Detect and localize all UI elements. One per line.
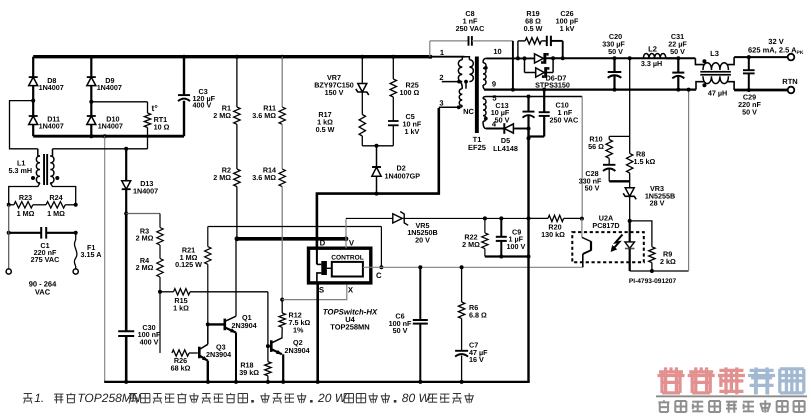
node bias <box>527 127 531 131</box>
wire RTN to terminal <box>734 89 788 92</box>
capacitor C13 <box>527 97 529 112</box>
svg-text:130 kΩ: 130 kΩ <box>541 230 565 239</box>
resistor R1 <box>235 55 239 59</box>
transistor Q1 <box>224 319 227 331</box>
wire input line terminal left <box>8 205 10 269</box>
wire output to terminal <box>734 56 788 58</box>
capacitor C28 <box>608 158 610 165</box>
capacitor C1 <box>9 232 42 234</box>
svg-text:1N4007: 1N4007 <box>39 122 64 131</box>
primary lower winding <box>459 89 462 106</box>
node R4-R15 <box>158 290 162 294</box>
wire R21 top to C-pin branch <box>208 226 382 228</box>
svg-text:PC817D: PC817D <box>592 221 619 230</box>
svg-text:0.5 W: 0.5 W <box>524 24 543 33</box>
svg-text:100 V: 100 V <box>507 242 526 251</box>
svg-text:2N3904: 2N3904 <box>285 346 310 355</box>
pin 3 wire <box>439 106 459 108</box>
wire D13 to R3 <box>126 213 160 215</box>
resistor R21 <box>207 227 209 247</box>
svg-text:NC: NC <box>463 107 474 116</box>
optocoupler phototransistor <box>581 219 583 238</box>
svg-text:6.8 Ω: 6.8 Ω <box>469 311 487 320</box>
resistor R4 <box>159 245 161 259</box>
svg-text:2N3904: 2N3904 <box>232 321 257 330</box>
svg-text:250 VAC: 250 VAC <box>550 116 579 125</box>
optocoupler U2A box <box>572 232 644 262</box>
svg-text:2: 2 <box>439 73 443 82</box>
op-amp U4 control block outline <box>309 248 371 283</box>
svg-text:20 W: 20 W <box>317 391 348 405</box>
svg-text:9: 9 <box>492 80 496 89</box>
svg-text:3.3 µH: 3.3 µH <box>641 59 662 68</box>
node AC2 junction D9-D10 <box>89 100 93 104</box>
capacitor C20 <box>613 56 617 60</box>
svg-text:150 V: 150 V <box>325 88 344 97</box>
thermistor RT1 <box>147 102 149 113</box>
wire AC2 upper from bridge to RT1 <box>91 101 147 103</box>
diode D5 <box>486 128 504 130</box>
resistor R15 <box>160 291 174 293</box>
svg-text:100 Ω: 100 Ω <box>400 88 420 97</box>
svg-text:TOP258MN: TOP258MN <box>330 322 369 331</box>
wire bottom primary ground bus <box>104 381 530 383</box>
wire AC1 from L1 to bridge <box>10 101 38 149</box>
svg-text:32 V: 32 V <box>768 37 783 46</box>
svg-text:L2: L2 <box>648 45 657 54</box>
svg-text:S: S <box>319 285 324 294</box>
wire feedback return <box>688 90 690 271</box>
resistor R22 <box>483 216 487 220</box>
svg-text:50 V: 50 V <box>393 326 408 335</box>
capacitor C30 <box>125 214 128 332</box>
inductor L1 common-mode choke <box>37 149 39 156</box>
capacitor C8 <box>430 40 469 42</box>
resistor R11 <box>280 55 284 59</box>
svg-text:47 µH: 47 µH <box>708 89 727 98</box>
wire pin10 to D6 <box>486 57 535 59</box>
svg-text:STPS3150: STPS3150 <box>535 81 570 90</box>
capacitor C6 <box>418 265 422 269</box>
inductor L3 <box>695 58 704 64</box>
wire Q1 emitter <box>235 333 237 382</box>
resistor R26 <box>172 350 189 356</box>
resistor R12 <box>281 300 283 313</box>
zener VR7 <box>360 55 364 59</box>
resistor R23 <box>7 203 11 207</box>
capacitor C3 <box>183 57 185 95</box>
resistor R14 <box>281 124 283 169</box>
svg-text:80 W: 80 W <box>402 391 432 405</box>
svg-text:1.: 1. <box>34 391 44 405</box>
svg-text:EF25: EF25 <box>468 143 486 152</box>
svg-text:275 VAC: 275 VAC <box>31 255 60 264</box>
svg-text:16 V: 16 V <box>469 355 484 364</box>
svg-text:V: V <box>349 238 355 247</box>
node Q2 base <box>266 344 270 348</box>
diode D9 <box>90 57 92 77</box>
svg-text:39 kΩ: 39 kΩ <box>239 368 259 377</box>
wire C branch down <box>380 227 382 268</box>
svg-text:2 kΩ: 2 kΩ <box>660 257 676 266</box>
svg-text:56 Ω: 56 Ω <box>588 142 604 151</box>
svg-text:0.5 W: 0.5 W <box>316 125 335 134</box>
svg-text:3.6 MΩ: 3.6 MΩ <box>252 111 276 120</box>
capacitor C31 <box>676 56 680 60</box>
resistor R20 <box>548 215 564 221</box>
pin 2 wire <box>442 81 459 83</box>
svg-text:2N3904: 2N3904 <box>206 350 231 359</box>
wire pin5 to opto collector <box>581 97 583 219</box>
svg-text:1.5 kΩ: 1.5 kΩ <box>634 157 656 166</box>
wire primary return drop <box>104 136 106 382</box>
node VR3 bottom <box>628 219 632 223</box>
wire R8 R10 tap <box>629 58 631 136</box>
resistor R9 <box>630 221 652 247</box>
diode D11 <box>32 101 34 116</box>
transformer T1 bias winding 5-4 <box>483 97 486 99</box>
capacitor C10 <box>542 88 546 92</box>
terminal output positive <box>788 54 795 61</box>
svg-text:R24: R24 <box>49 193 62 202</box>
resistor R25 <box>391 55 395 59</box>
svg-text:0.125 W: 0.125 W <box>175 260 202 269</box>
wire bias column <box>527 116 529 129</box>
svg-text:PI-4793-091207: PI-4793-091207 <box>629 278 677 285</box>
svg-text:50 V: 50 V <box>495 116 510 125</box>
wire C pin <box>363 266 583 268</box>
wire R22 C9 bottom <box>485 255 529 257</box>
wire V pin <box>345 239 347 248</box>
wire C8 to ground rail <box>512 41 514 90</box>
svg-text:C: C <box>376 271 382 280</box>
terminal RTN <box>788 87 795 94</box>
LED arrows <box>612 235 623 251</box>
svg-text:D: D <box>320 238 326 247</box>
svg-text:10: 10 <box>493 47 501 56</box>
diode D6 <box>535 54 544 63</box>
wire R4 junction down to R26 <box>159 292 161 353</box>
svg-text:1: 1 <box>440 48 444 57</box>
resistor R8 <box>629 136 631 153</box>
svg-text:10 Ω: 10 Ω <box>154 123 170 132</box>
wire VR5 row to R20 <box>485 217 529 219</box>
svg-text:1N4007: 1N4007 <box>98 122 123 131</box>
resistor R6 <box>460 265 464 269</box>
watermark logo <box>658 367 685 394</box>
svg-text:3.15 A: 3.15 A <box>81 250 102 259</box>
node X divider <box>280 298 284 302</box>
wire feedback bottom <box>630 270 689 272</box>
diode D10 <box>90 102 92 116</box>
wire X pin <box>282 283 347 300</box>
svg-text:1N4007: 1N4007 <box>39 83 64 92</box>
svg-text:400 V: 400 V <box>140 338 159 347</box>
svg-text:20 V: 20 V <box>415 235 430 244</box>
svg-text:CONTROL: CONTROL <box>331 254 364 261</box>
wire AC2 lower from L1 to RT1 <box>53 148 148 150</box>
svg-text:RTN: RTN <box>782 77 797 86</box>
node Q1 base <box>206 322 210 326</box>
svg-text:LL4148: LL4148 <box>493 144 518 153</box>
capacitor C9 <box>499 216 503 220</box>
wire S pin <box>316 283 319 382</box>
fuse F1 <box>75 233 77 240</box>
svg-text:68 kΩ: 68 kΩ <box>171 364 191 373</box>
svg-text:3: 3 <box>439 99 443 108</box>
wire C28 R8 join <box>609 180 630 182</box>
transformer T1 primary <box>432 56 465 58</box>
svg-text:50 V: 50 V <box>585 184 600 193</box>
svg-text:2 MΩ: 2 MΩ <box>462 240 480 249</box>
resistor R24 <box>46 202 65 208</box>
svg-text:1 kV: 1 kV <box>405 127 420 136</box>
caption figure title <box>23 393 32 403</box>
wire L1 right bottom <box>50 183 75 205</box>
optocoupler LED <box>629 221 631 242</box>
node D13 tap <box>124 147 128 151</box>
svg-text:1%: 1% <box>293 326 304 335</box>
svg-text:5.3 mH: 5.3 mH <box>9 166 33 175</box>
svg-text:1 MΩ: 1 MΩ <box>47 209 65 218</box>
wire V-pin feed <box>237 237 346 241</box>
svg-text:50 V: 50 V <box>670 47 685 56</box>
capacitor C26 <box>546 36 548 46</box>
svg-text:250 VAC: 250 VAC <box>456 24 485 33</box>
svg-text:2 MΩ: 2 MΩ <box>213 173 231 182</box>
mosfet inside U4 <box>316 248 318 264</box>
wire output positive <box>546 57 696 59</box>
svg-text:50 V: 50 V <box>608 47 623 56</box>
transistor Q3 <box>198 347 201 359</box>
resistor R10 <box>608 136 610 139</box>
diode D7 <box>523 56 527 60</box>
resistor R2 <box>236 124 238 169</box>
svg-text:28 V: 28 V <box>650 199 665 208</box>
svg-text:1 kV: 1 kV <box>560 24 575 33</box>
wire secondary ground rail <box>484 88 696 90</box>
capacitor C7 <box>461 319 463 351</box>
wire DC minus bus of bridge <box>33 135 184 138</box>
svg-text:1N4007: 1N4007 <box>97 83 122 92</box>
svg-text:1 MΩ: 1 MΩ <box>17 209 35 218</box>
svg-text:t°: t° <box>152 103 159 113</box>
wire L1 left bottom <box>9 183 40 205</box>
wire Q1 collector <box>235 239 237 316</box>
svg-text:2 MΩ: 2 MΩ <box>136 263 154 272</box>
wire pin5 bias top <box>486 96 582 98</box>
inductor L2 <box>666 57 679 59</box>
svg-text:X: X <box>348 285 354 294</box>
zener VR3 <box>629 181 631 188</box>
diode D2 <box>376 146 378 167</box>
node AC1 junction D8-D11 <box>31 99 35 103</box>
svg-text:VAC: VAC <box>35 288 51 297</box>
diode D13 <box>125 149 127 181</box>
transformer T1 secondary winding 10-9 <box>483 58 486 62</box>
transformer T1 core <box>475 57 479 134</box>
svg-text:1N4007GP: 1N4007GP <box>385 171 421 180</box>
diode D8 <box>32 57 34 77</box>
svg-text:2 MΩ: 2 MΩ <box>213 111 231 120</box>
capacitor C29 <box>748 57 750 70</box>
node D13 bottom <box>124 212 128 216</box>
svg-text:1N4007: 1N4007 <box>133 187 158 196</box>
svg-text:3.6 MΩ: 3.6 MΩ <box>252 173 276 182</box>
resistor R19 <box>517 41 519 59</box>
svg-text:L3: L3 <box>710 49 719 58</box>
resistor R3 <box>159 214 161 228</box>
svg-text:R23: R23 <box>19 193 32 202</box>
svg-text:400 V: 400 V <box>193 101 212 110</box>
wire Q1 base <box>208 323 224 325</box>
svg-text:1 kΩ: 1 kΩ <box>173 304 189 313</box>
wire clamp junction <box>362 145 393 147</box>
transistor Q2 <box>268 345 270 347</box>
wire top DC bus <box>33 55 432 58</box>
svg-text:50 V: 50 V <box>742 107 757 116</box>
svg-text:2 MΩ: 2 MΩ <box>136 234 154 243</box>
wire drain rail <box>317 108 439 248</box>
resistor R17 <box>359 115 365 137</box>
node R8 tap <box>628 56 632 60</box>
resistor R18 <box>267 292 269 346</box>
capacitor C5 <box>388 120 399 122</box>
svg-text:625 mA, 2.5 APK: 625 mA, 2.5 APK <box>748 46 804 57</box>
zener VR5 <box>346 217 393 219</box>
